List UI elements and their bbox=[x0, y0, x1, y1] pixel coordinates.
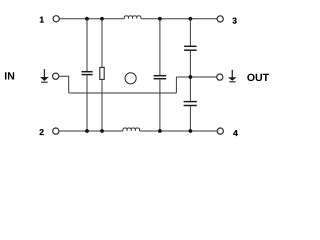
junction: bottom of C4 branch bbox=[189, 129, 193, 133]
ground (IN side) bbox=[40, 69, 49, 82]
svg-text:4: 4 bbox=[233, 128, 238, 138]
wire: IN feed (down-step) bbox=[59, 76, 69, 93]
capacitor C3 bbox=[184, 46, 197, 50]
wire: C1 branch lower segment bbox=[86, 75, 88, 131]
svg-text:3: 3 bbox=[232, 15, 237, 25]
terminal 4 bbox=[217, 128, 223, 134]
svg-text:OUT: OUT bbox=[247, 72, 270, 84]
wire: main through line bbox=[69, 92, 177, 94]
gas discharge tube F1 (circle symbol) bbox=[125, 73, 136, 84]
wire: C1 branch upper segment bbox=[86, 19, 88, 71]
junction: bottom of C2 branch bbox=[158, 129, 162, 133]
junction: bottom of R1 branch bbox=[100, 129, 104, 133]
terminal OUT bbox=[217, 74, 223, 80]
ground (OUT side) bbox=[228, 70, 237, 82]
junction: bottom of C1 branch bbox=[85, 129, 89, 133]
resistor R1 bbox=[100, 67, 104, 79]
wire: R1 branch upper segment bbox=[101, 19, 103, 68]
terminal IN bbox=[53, 73, 59, 79]
wire: R1 branch lower segment bbox=[101, 79, 103, 131]
wire: terminal 2 to inductor L2 bbox=[59, 130, 123, 132]
wire: OUT feed bbox=[176, 76, 216, 78]
wire: C3 branch upper segment bbox=[189, 19, 191, 46]
inductor L2 bbox=[123, 128, 140, 131]
terminal 3 bbox=[217, 16, 223, 22]
junction: top of R1 branch bbox=[100, 17, 104, 21]
junction: top of C3 branch bbox=[189, 17, 193, 21]
wire: inductor L1 to terminal 3 bbox=[141, 18, 217, 20]
capacitor C1 bbox=[82, 72, 93, 75]
terminal 1 bbox=[53, 16, 59, 22]
junction: OUT node bbox=[189, 75, 193, 79]
junction: top of C2 branch bbox=[158, 17, 162, 21]
inductor L1 bbox=[124, 16, 141, 19]
wire: riser to OUT node bbox=[175, 77, 177, 93]
wire: C3 to OUT node bbox=[189, 51, 191, 101]
wire: inductor L2 to terminal 4 bbox=[140, 130, 218, 132]
wire: terminal 1 to inductor L1 bbox=[59, 18, 124, 20]
wire: C2 branch lower segment bbox=[159, 79, 161, 131]
wire: C2 branch upper segment bbox=[159, 19, 161, 75]
junction: top of C1 branch bbox=[85, 17, 89, 21]
capacitor C2 bbox=[154, 76, 167, 79]
svg-text:2: 2 bbox=[39, 127, 44, 137]
capacitor C4 bbox=[184, 102, 197, 106]
wire: C4 branch lower segment bbox=[189, 106, 191, 131]
terminal 2 bbox=[53, 128, 59, 134]
svg-text:1: 1 bbox=[39, 14, 44, 24]
svg-text:IN: IN bbox=[4, 71, 15, 83]
